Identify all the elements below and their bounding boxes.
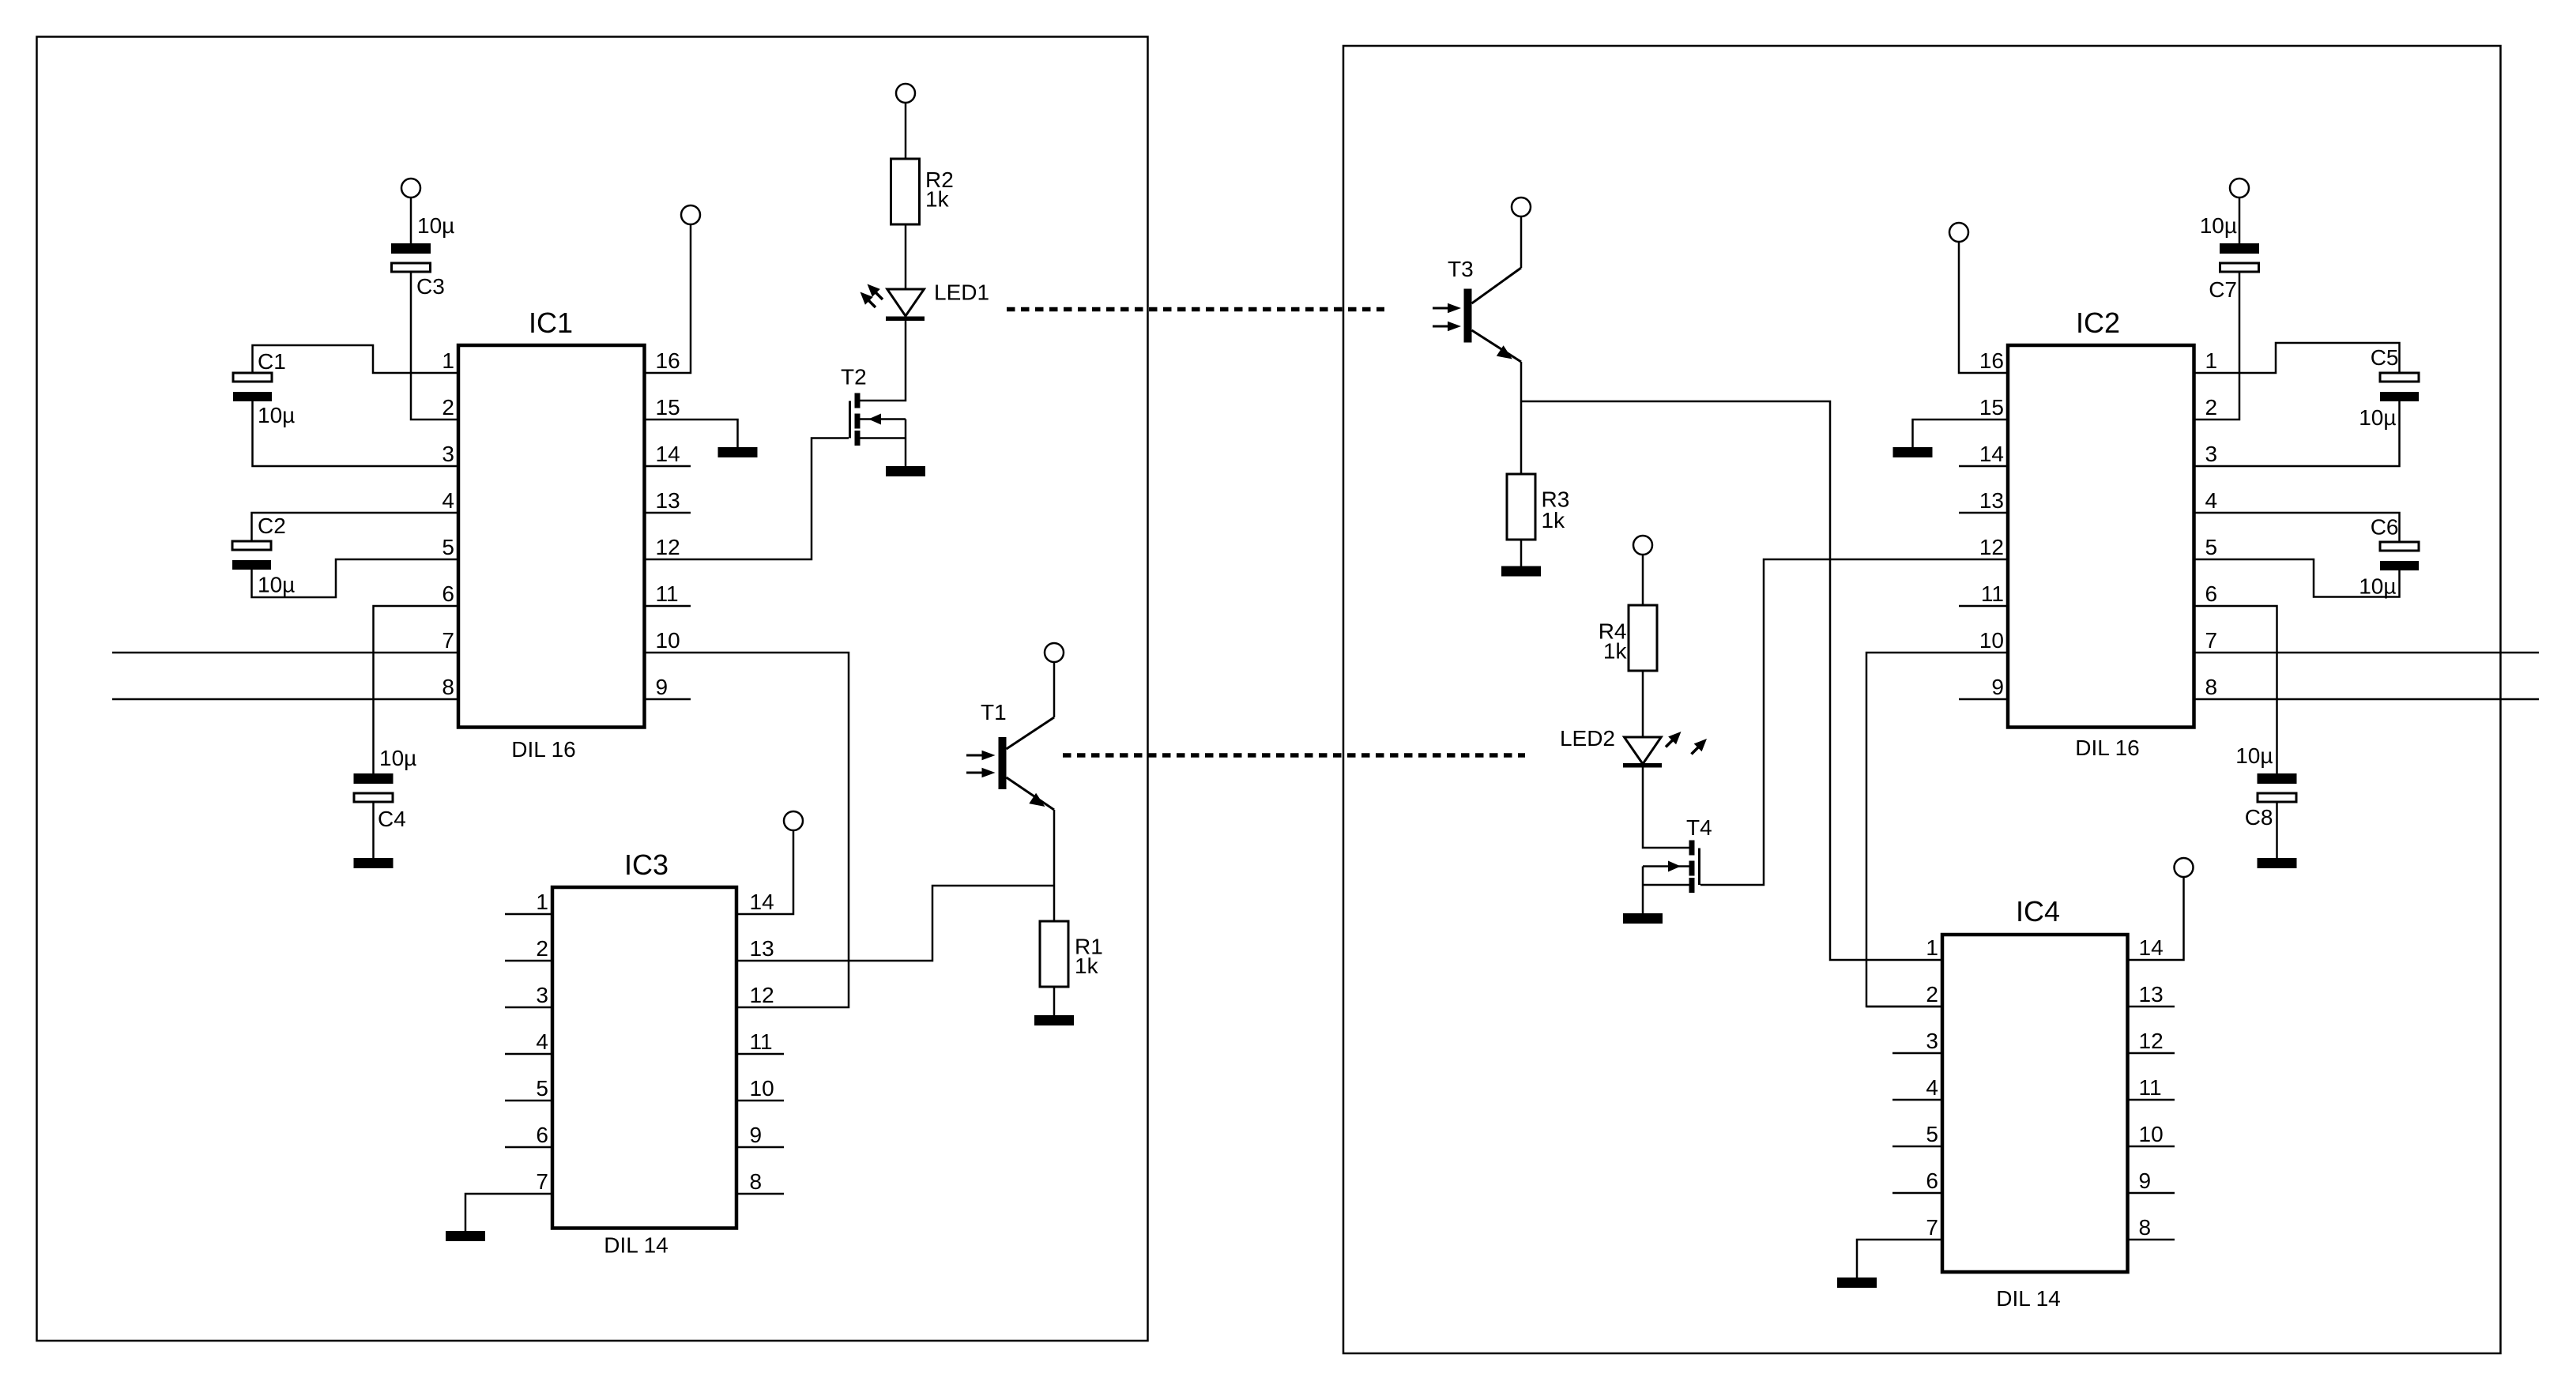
svg-text:15: 15: [656, 395, 680, 420]
IC3 left pin numbers 1-7: [536, 890, 548, 1194]
wire stub IC1 pin13: [645, 512, 691, 514]
svg-text:C3: C3: [416, 274, 445, 299]
wire R3 to ground: [1520, 540, 1523, 566]
wire IC2 pin6 to C8: [2194, 606, 2277, 773]
svg-text:6: 6: [442, 581, 454, 606]
capacitor C8: [2258, 773, 2297, 802]
wire LED1 to T2 drain: [861, 321, 906, 401]
power terminal at IC3 pin14: [784, 811, 803, 830]
wire LED2 to T4 drain: [1643, 768, 1689, 849]
svg-text:1: 1: [536, 890, 548, 914]
wire bus IC1 pin7: [112, 652, 458, 654]
IC IC4 (DIL 14): [1942, 935, 2128, 1272]
T3 light arrows: [1433, 303, 1461, 332]
svg-text:T4: T4: [1686, 815, 1712, 840]
capacitor C1: [233, 373, 272, 401]
IC4 right pin numbers 14-8: [2139, 935, 2164, 1240]
wire stub IC2 pin9: [1959, 698, 2008, 701]
svg-text:8: 8: [750, 1169, 763, 1194]
svg-text:IC2: IC2: [2076, 307, 2120, 339]
svg-text:10µ: 10µ: [2235, 743, 2273, 768]
svg-text:8: 8: [2139, 1215, 2152, 1240]
capacitor C5: [2380, 373, 2419, 401]
power terminal above T1: [1045, 643, 1064, 662]
IC3 right pin numbers 14-8: [750, 890, 774, 1194]
wire C7 to IC2 pin2: [2194, 272, 2240, 420]
wire C8 to ground: [2276, 802, 2278, 858]
svg-text:2: 2: [442, 395, 454, 420]
svg-text:3: 3: [536, 983, 548, 1007]
wire stub IC1 pin14: [645, 465, 691, 468]
IC2 right pin numbers 1-8: [2205, 348, 2218, 699]
svg-text:DIL 14: DIL 14: [604, 1233, 668, 1258]
wire stub IC2 pin13: [1959, 512, 2008, 514]
wire R2 to LED1: [905, 224, 907, 290]
svg-text:1k: 1k: [1075, 954, 1099, 978]
resistor R1: [1040, 921, 1068, 987]
svg-text:7: 7: [442, 628, 454, 653]
svg-text:10µ: 10µ: [2359, 405, 2396, 430]
svg-text:16: 16: [656, 348, 680, 373]
wire IC1 pin12 to T2 gate: [645, 438, 849, 560]
svg-text:11: 11: [2139, 1075, 2162, 1100]
svg-text:11: 11: [1981, 581, 2004, 606]
ground below R1: [1034, 1015, 1074, 1025]
wire power to R4: [1642, 555, 1644, 605]
wire IC1 pin16 to power: [645, 224, 691, 373]
svg-text:C6: C6: [2371, 515, 2399, 540]
svg-text:2: 2: [536, 936, 548, 961]
svg-text:13: 13: [750, 936, 774, 961]
LED LED1: [886, 289, 925, 321]
svg-text:10µ: 10µ: [379, 746, 416, 770]
svg-text:10µ: 10µ: [258, 403, 295, 427]
svg-text:C2: C2: [258, 514, 286, 538]
power terminal at IC1 pin16: [681, 205, 700, 224]
svg-text:14: 14: [750, 890, 774, 914]
wire IC2 pin1 to C5: [2194, 343, 2400, 373]
svg-text:2: 2: [2205, 395, 2218, 420]
wire stub IC1 pin9: [645, 698, 691, 701]
svg-text:4: 4: [442, 488, 454, 513]
svg-text:13: 13: [656, 488, 680, 513]
svg-text:11: 11: [750, 1029, 773, 1054]
wire stubs IC4 pins 3-6: [1892, 1053, 1942, 1193]
svg-text:C5: C5: [2371, 345, 2399, 370]
wire power to C3: [410, 198, 412, 243]
svg-text:9: 9: [2139, 1168, 2152, 1193]
LED1 emission arrows: [861, 284, 883, 308]
capacitor C6: [2380, 542, 2419, 570]
ground at T4 source: [1623, 913, 1663, 924]
svg-text:T2: T2: [841, 365, 867, 389]
svg-text:1k: 1k: [1603, 639, 1628, 664]
wire T2 source to ground: [905, 420, 907, 467]
dashed link T1 to LED2: [1063, 753, 1525, 758]
transistor T2 (n-MOSFET): [850, 393, 906, 446]
svg-text:3: 3: [442, 442, 454, 466]
power terminal above T3: [1512, 198, 1531, 216]
IC1 right pin numbers 16-9: [656, 348, 680, 699]
svg-text:1k: 1k: [1542, 508, 1566, 532]
wire power to R2: [905, 103, 907, 159]
capacitor C4: [354, 773, 394, 802]
svg-text:15: 15: [1979, 395, 2004, 420]
svg-text:LED2: LED2: [1560, 726, 1615, 751]
ground at IC3 pin7: [446, 1231, 485, 1241]
svg-text:C8: C8: [2245, 805, 2273, 830]
svg-text:13: 13: [2139, 982, 2164, 1007]
svg-text:11: 11: [656, 581, 679, 606]
ground at IC4 pin7: [1837, 1278, 1877, 1288]
svg-text:4: 4: [2205, 488, 2218, 513]
transistor T1 (photo npn): [999, 717, 1055, 810]
svg-text:1: 1: [1926, 935, 1938, 960]
svg-text:IC3: IC3: [624, 849, 668, 881]
wire C5 to IC2 pin3: [2194, 401, 2400, 466]
ground below C4: [354, 858, 394, 868]
svg-text:10: 10: [750, 1076, 774, 1101]
power terminal at IC4 pin14: [2175, 858, 2194, 877]
wire bus IC2 pin7: [2194, 652, 2540, 654]
wire IC1 pin1 to C1: [253, 345, 459, 373]
IC2 left pin numbers 16-9: [1979, 348, 2004, 699]
capacitor C3: [391, 243, 431, 272]
wire C1 to IC1 pin3: [253, 401, 459, 466]
capacitor C2: [232, 541, 271, 570]
wire IC2 pin10 to IC4 pin2: [1866, 653, 2008, 1007]
wire IC4 pin7 to ground: [1857, 1240, 1942, 1278]
svg-text:8: 8: [2205, 675, 2218, 699]
svg-text:10: 10: [1979, 628, 2004, 653]
wire bus IC2 pin8: [2194, 698, 2540, 701]
svg-text:9: 9: [656, 675, 668, 699]
power terminal above C7: [2230, 179, 2249, 198]
IC IC1 (DIL 16): [458, 345, 645, 728]
capacitor C7: [2220, 243, 2259, 272]
left board outline: [37, 37, 1148, 1341]
svg-text:13: 13: [1979, 488, 2004, 513]
ground at IC2 pin15: [1893, 447, 1933, 457]
svg-text:10: 10: [2139, 1122, 2164, 1146]
svg-text:10µ: 10µ: [258, 573, 295, 597]
svg-text:4: 4: [1926, 1075, 1938, 1100]
svg-text:14: 14: [2139, 935, 2164, 960]
right board outline: [1343, 46, 2501, 1353]
svg-text:14: 14: [1979, 442, 2004, 466]
wire power to T1 collector: [1053, 662, 1056, 717]
svg-text:7: 7: [536, 1169, 548, 1194]
svg-text:12: 12: [656, 535, 680, 559]
svg-text:14: 14: [656, 442, 680, 466]
wire T1 emitter node to IC3 pin13: [736, 886, 1054, 961]
power terminal above R4: [1633, 536, 1652, 555]
svg-text:12: 12: [1979, 535, 2004, 559]
svg-text:T3: T3: [1448, 257, 1474, 281]
transistor T4 (n-MOSFET): [1643, 841, 1700, 894]
svg-text:10: 10: [656, 628, 680, 653]
svg-text:7: 7: [2205, 628, 2218, 653]
svg-text:T1: T1: [981, 700, 1007, 724]
wire IC4 pin14 to power: [2128, 877, 2184, 960]
ground at T2 source: [886, 466, 925, 476]
svg-text:6: 6: [536, 1123, 548, 1147]
wire IC3 pin14 to power: [736, 830, 793, 914]
wire IC2 pin4 to C6: [2194, 513, 2400, 542]
svg-text:1: 1: [442, 348, 454, 373]
svg-text:9: 9: [1991, 675, 2004, 699]
svg-text:3: 3: [2205, 442, 2218, 466]
ground at IC1 pin15: [718, 447, 758, 457]
resistor R3: [1507, 474, 1535, 540]
svg-text:2: 2: [1926, 982, 1938, 1007]
wire IC1 pin15 to ground: [645, 420, 738, 447]
wire C3 to IC1 pin2: [411, 272, 458, 420]
transistor T3 (photo npn): [1464, 268, 1522, 362]
wire stubs IC3 pins 1-6: [505, 914, 552, 1147]
wire C2 to IC1 pin5: [252, 559, 459, 597]
IC IC2 (DIL 16): [2008, 345, 2194, 728]
wire T3 emitter to R3: [1520, 362, 1523, 474]
wire R4 to LED2: [1642, 671, 1644, 738]
svg-text:5: 5: [1926, 1122, 1938, 1146]
T1 light arrows: [966, 751, 996, 778]
ground below R3: [1501, 566, 1541, 577]
svg-text:8: 8: [442, 675, 454, 699]
IC4 left pin numbers 1-7: [1926, 935, 1938, 1240]
resistor R2: [891, 159, 920, 224]
svg-text:1: 1: [2205, 348, 2218, 373]
svg-text:1k: 1k: [925, 187, 950, 212]
svg-text:5: 5: [536, 1076, 548, 1101]
LED LED2: [1623, 737, 1662, 768]
wire IC2 pin15 to ground: [1913, 420, 2009, 447]
dashed link LED1 to T3: [1007, 307, 1384, 312]
svg-text:4: 4: [536, 1029, 548, 1054]
wire IC2 pin16 to power: [1959, 242, 2008, 373]
wire stubs IC4 pins 13-8: [2128, 1007, 2175, 1240]
wire stub IC1 pin11: [645, 605, 691, 608]
svg-text:C4: C4: [378, 807, 406, 831]
svg-text:9: 9: [750, 1123, 763, 1147]
wire stub IC2 pin11: [1959, 605, 2008, 608]
wire IC1 pin4 to C2: [252, 513, 459, 541]
svg-text:3: 3: [1926, 1029, 1938, 1053]
power terminal above R2: [896, 84, 915, 103]
wire stub IC2 pin14: [1959, 465, 2008, 468]
svg-text:IC1: IC1: [529, 307, 573, 339]
resistor R4: [1629, 605, 1657, 671]
svg-text:LED1: LED1: [934, 280, 989, 305]
svg-text:C7: C7: [2209, 277, 2237, 302]
svg-text:DIL 16: DIL 16: [2075, 736, 2139, 760]
svg-text:C1: C1: [258, 349, 286, 374]
svg-text:DIL 16: DIL 16: [511, 737, 575, 762]
LED2 emission arrows: [1666, 732, 1707, 754]
svg-text:12: 12: [2139, 1029, 2164, 1053]
wire IC1 pin6 to C4: [374, 606, 459, 773]
wire IC1 pin10 to IC3 pin12: [645, 653, 849, 1007]
svg-text:DIL 14: DIL 14: [1996, 1286, 2060, 1311]
wire C4 to ground: [372, 802, 375, 858]
ground below C8: [2258, 858, 2297, 868]
IC IC3 (DIL 14): [552, 887, 736, 1229]
IC1 left pin numbers 1-8: [442, 348, 454, 699]
wire T4 source to ground: [1642, 867, 1644, 914]
power terminal above C3: [401, 179, 420, 198]
wire power to C7: [2239, 198, 2241, 243]
wire bus IC1 pin8: [112, 698, 458, 701]
svg-text:IC4: IC4: [2016, 895, 2060, 928]
svg-text:16: 16: [1979, 348, 2004, 373]
wire stubs IC3 pins 11-8: [736, 1054, 784, 1194]
svg-text:7: 7: [1926, 1215, 1938, 1240]
svg-text:10µ: 10µ: [2200, 213, 2237, 238]
svg-text:12: 12: [750, 983, 774, 1007]
wire T1 emitter to R1: [1053, 810, 1056, 921]
svg-text:5: 5: [442, 535, 454, 559]
svg-text:10µ: 10µ: [2359, 574, 2396, 599]
svg-text:10µ: 10µ: [417, 213, 454, 238]
wire IC4 pin2 stub: [1866, 1006, 1942, 1008]
power terminal at IC2 pin16: [1949, 223, 1968, 242]
svg-text:6: 6: [1926, 1168, 1938, 1193]
svg-text:5: 5: [2205, 535, 2218, 559]
wire power to T3 collector: [1520, 216, 1523, 268]
wire IC3 pin7 to ground: [465, 1194, 552, 1231]
wire C6 to IC2 pin5: [2194, 559, 2400, 597]
wire T3 emitter node to IC4 pin1: [1521, 401, 1942, 960]
svg-text:6: 6: [2205, 581, 2218, 606]
wire R1 to ground: [1053, 987, 1056, 1015]
wire IC2 pin12 to T4 gate: [1700, 559, 2008, 885]
